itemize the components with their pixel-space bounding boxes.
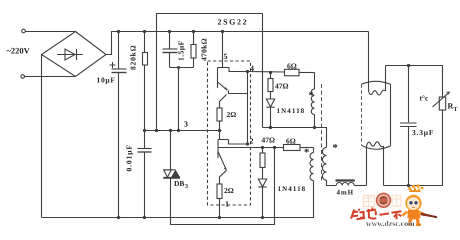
resistor 470kOhm [193,32,195,45]
svg-text:3: 3 [184,120,188,129]
svg-text:2Ω: 2Ω [224,186,234,195]
inductor 4mH [336,183,354,186]
node pin4 internal [246,70,249,73]
AC terminal bottom [21,75,25,79]
svg-text:DB: DB [174,179,184,188]
resistor 47 Ohm (pin4 branch) [270,73,272,79]
svg-text:4mH: 4mH [337,189,354,197]
svg-text:t°c: t°c [420,94,429,103]
node 0.01uF-rail [143,216,146,219]
capacitor 10uF [118,32,120,69]
svg-text:470kΩ: 470kΩ [200,38,209,61]
box 2SG22 module outline [157,14,263,131]
svg-text:1.5μF: 1.5μF [177,40,186,61]
svg-text:2: 2 [250,137,254,146]
svg-text:1N4118: 1N4118 [277,107,306,115]
svg-text:47Ω: 47Ω [275,82,289,91]
svg-text:5: 5 [224,52,228,61]
faint text zhao xin pian [364,196,402,207]
diode 1N4118 (pin4 branch) [266,99,274,107]
wire bridge right vertex to top rail [106,32,369,55]
wire pin 2 [218,147,284,149]
svg-text:~220V: ~220V [7,46,31,56]
transistor Q1 [218,67,230,69]
resistor 6 Ohm (pin4) [285,69,300,76]
capacitor 3.3uF [408,66,410,123]
wire lamp top to thermistor [386,66,443,98]
red circular stamp [377,193,391,207]
lamp filament bottom [366,146,368,186]
bridge rectifier diamond [42,32,107,77]
resistor 820kOhm [144,32,146,53]
svg-text:T: T [454,107,458,113]
svg-text:10μF: 10μF [97,76,116,85]
dashed IC internal box [208,61,251,205]
capacitor 1.5uF [169,32,171,49]
svg-text:0.01μF: 0.01μF [125,144,134,171]
node pin3-1.5uF junction [177,129,180,132]
svg-text:1N4118: 1N4118 [278,185,307,193]
transformer winding A (pin4) [314,73,316,90]
wire pin 5 [222,32,224,68]
wei ku yi xia red text [351,208,402,220]
AC terminal top [22,29,26,33]
transformer winding B (pin2) [313,148,315,153]
node rail-820k [143,30,146,33]
resistor 2 Ohm lower [217,184,222,199]
svg-text:3: 3 [185,184,188,190]
wire midpoint pin4 to Q2 collector [247,72,249,145]
svg-text:2SG22: 2SG22 [218,18,249,27]
transformer core [321,84,323,183]
lamp filament top [368,32,370,92]
node 10uF-rail [117,216,120,219]
node rail-470k [192,30,195,33]
node rail-1.5uF [168,30,171,33]
diode 1N4118 (pin2 branch) [258,179,266,187]
diac DB3 [170,131,172,170]
svg-text:47Ω: 47Ω [262,136,276,145]
bridge diode [57,54,83,56]
fluorescent lamp tube [362,81,391,84]
svg-text:*: * [304,148,309,159]
wire bridge left vertex down to bottom rail [41,55,43,218]
transformer winding C (lamp) [315,128,327,148]
wire pin 4 [248,71,285,74]
svg-text:4: 4 [250,64,254,73]
resistor 6 Ohm (pin2) [284,145,301,151]
svg-text:*: * [309,91,314,102]
svg-text:2Ω: 2Ω [227,110,237,119]
wire top terminal to bridge [25,31,75,33]
node pin3 wire left end [143,129,146,132]
wire bottom terminal to bridge [25,76,76,78]
wire pin3 [145,130,222,132]
svg-text:820kΩ: 820kΩ [129,45,138,70]
resistor 47 Ohm (pin2 branch) [262,148,264,154]
node pin2-diac branch [273,146,276,149]
svg-text:3.3μF: 3.3μF [412,128,434,137]
thermistor RT [439,97,445,110]
svg-text:www.dzsc.com: www.dzsc.com [366,219,415,228]
capacitor 0.01uF [144,131,146,149]
svg-text:6Ω: 6Ω [286,137,296,146]
svg-text:*: * [333,143,338,154]
resistor 2 Ohm upper [217,108,222,121]
svg-text:6Ω: 6Ω [287,62,297,71]
mascot [402,184,438,226]
svg-text:1: 1 [225,200,229,209]
transistor Q2 [219,131,221,140]
node rail-10uF [117,30,120,33]
node rail-pin5 [221,30,224,33]
wire lamp bottom to thermistor [384,110,443,186]
watermark [351,184,438,228]
node pin1-rail [218,216,221,219]
node pin2-47 branch [261,146,264,149]
link line to transformer [263,127,315,129]
node pin4-47 branch [269,71,272,74]
